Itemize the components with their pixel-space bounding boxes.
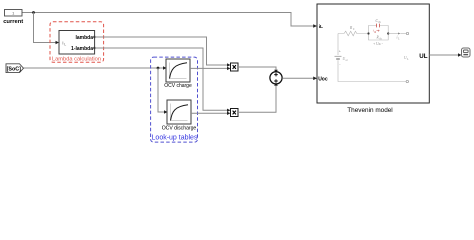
circuit output arrow iL and terminal — [388, 33, 399, 35]
capacitor Cth — [376, 24, 378, 28]
wire X1 out to sum — [238, 67, 276, 70]
arrowhead into Thevenin iL — [313, 24, 317, 28]
svg-text:L: L — [64, 43, 66, 47]
wire X2 out to sum — [238, 86, 276, 112]
lookup table OCV discharge — [167, 100, 191, 124]
svg-text:iL: iL — [319, 24, 323, 30]
svg-text:UL: UL — [419, 53, 427, 60]
wire SoC main — [24, 67, 165, 69]
lookup table OCV charge — [166, 59, 190, 82]
port nub 1-lambda out — [93, 47, 95, 49]
port nub lambda out — [93, 36, 95, 38]
dashed area Lambda calculation — [50, 22, 104, 63]
wire current branch to lambda subsystem — [34, 13, 58, 43]
svg-text:OCV charge: OCV charge — [164, 83, 192, 89]
circuit battery Uoc — [337, 34, 339, 56]
wire OCV discharge out to X2 — [191, 112, 228, 114]
svg-text:[SoC]: [SoC] — [7, 66, 22, 72]
wire 1-lambda to X2 — [95, 48, 228, 110]
wire sum out to Thevenin Uoc — [282, 77, 314, 79]
svg-text:current: current — [3, 19, 23, 25]
wire lambda to X1 — [95, 37, 228, 65]
circuit RC parallel loop — [369, 26, 377, 34]
svg-text:+ Uth -: + Uth - — [373, 42, 383, 46]
wire SoC branch to OCV discharge — [158, 68, 166, 112]
scope block — [462, 48, 471, 57]
svg-text:lambda: lambda — [75, 35, 93, 41]
dashed area Look-up tables — [151, 57, 198, 142]
subsystem Thevenin model — [317, 4, 429, 103]
subsystem Lambda (lambda / 1-lambda) — [59, 31, 95, 55]
From tag SoC — [6, 64, 24, 73]
circuit top rail with resistor R0 — [338, 31, 369, 36]
svg-text:OCV discharge: OCV discharge — [162, 126, 197, 132]
svg-text:1-lambda: 1-lambda — [71, 46, 93, 52]
svg-text:Look-up tables: Look-up tables — [152, 134, 198, 141]
sum block — [270, 72, 282, 84]
product X1 — [231, 63, 239, 71]
wire OCV charge out to X1 — [190, 67, 228, 69]
svg-text:Uoc: Uoc — [318, 77, 328, 83]
circuit bottom rail — [338, 60, 406, 81]
svg-text:Lambda calculation: Lambda calculation — [52, 56, 101, 62]
svg-text:Thevenin model: Thevenin model — [347, 107, 392, 114]
inport current — [5, 10, 23, 17]
node junction on SoC wire — [157, 67, 160, 70]
wire UL out to scope — [429, 54, 459, 56]
node junction on current wire — [32, 11, 35, 14]
wire current main — [22, 13, 315, 27]
product X2 — [231, 109, 239, 117]
